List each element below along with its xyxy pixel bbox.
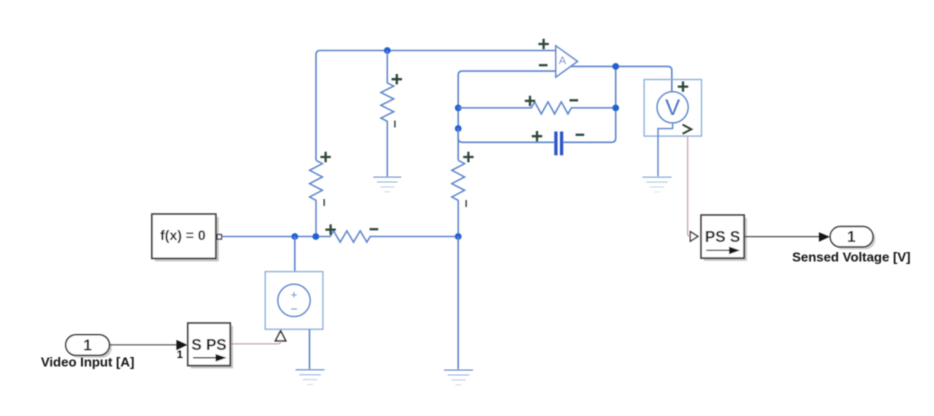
wire top net from node A to op-amp + input — [316, 51, 556, 161]
junction J6 (node under R1) — [312, 233, 319, 240]
wire input port to S-PS converter — [109, 344, 177, 346]
junction J1 (feedback resistor left) — [455, 105, 462, 112]
capacitor C1 — [532, 131, 584, 155]
wire node to bottom ground — [457, 237, 459, 370]
svg-text:A: A — [559, 55, 567, 67]
S-PS converter block shadow — [191, 326, 233, 369]
svg-text:−: − — [290, 302, 297, 316]
wire S-PS to current source (red) — [230, 341, 280, 344]
ground G4 (bottom middle) — [444, 370, 473, 385]
junction J5 (current source feed) — [291, 233, 298, 240]
resistor R2 (middle vertical, to ground) — [381, 51, 402, 177]
output port oval 1 — [830, 227, 873, 247]
op-amp U1 — [538, 39, 577, 77]
resistor R5 labels — [325, 224, 335, 234]
PS-S converter block — [701, 215, 744, 258]
wire PS-S to output port — [744, 236, 819, 238]
wire voltmeter to ground — [658, 123, 673, 176]
wire PS signal from voltmeter to PS-S converter (red) — [688, 136, 691, 236]
svg-text:S PS: S PS — [191, 337, 226, 354]
ground G2 (under voltmeter) — [643, 177, 672, 192]
svg-text:PS S: PS S — [705, 229, 740, 246]
signal input triangle of current source (black) — [275, 331, 285, 341]
svg-text:I: I — [323, 198, 326, 209]
resistor R3 (feedback, horizontal) — [458, 96, 616, 114]
S-PS converter block — [188, 323, 230, 366]
arrowhead into output port — [819, 232, 830, 241]
voltmeter U2 box — [644, 80, 701, 137]
wire op-amp output to voltmeter — [571, 66, 672, 91]
junction J7 (node under R4) — [455, 233, 462, 240]
svg-text:1: 1 — [177, 349, 183, 361]
svg-text:+: + — [291, 289, 297, 301]
svg-text:V: V — [665, 95, 680, 120]
junction J3 (op-amp output) — [612, 63, 619, 70]
svg-text:1: 1 — [83, 338, 92, 355]
ground G3 (under current source) — [296, 370, 325, 385]
wire capacitor right branch up to op-amp output — [563, 66, 615, 142]
output port oval shadow — [833, 229, 876, 249]
svg-text:1: 1 — [847, 229, 856, 246]
junction node A (top) — [384, 47, 391, 54]
wire op-amp minus input (feedback net left) — [458, 71, 556, 160]
svg-text:Sensed Voltage [V]: Sensed Voltage [V] — [792, 250, 910, 265]
solver block f(x)=0 — [152, 214, 216, 258]
wire capacitor left branch — [458, 129, 554, 143]
PS input triangle of PS-S converter — [690, 232, 698, 242]
input port oval 1 — [66, 335, 110, 356]
wire main bottom net with resistor R5 — [222, 231, 458, 242]
wire current source to ground — [309, 329, 311, 369]
resistor R1 (left vertical) — [310, 152, 331, 237]
ground G1 (under R2) — [373, 177, 401, 192]
svg-text:I: I — [394, 120, 397, 131]
resistor R4 (right vertical) — [452, 152, 474, 237]
PS-S converter block shadow — [704, 218, 747, 261]
arrowhead into S-PS converter — [176, 340, 187, 350]
junction J2 (capacitor branch left) — [455, 125, 462, 132]
solver block port square — [217, 235, 221, 240]
solver block f(x)=0 shadow — [155, 217, 219, 261]
current source B3 box — [265, 272, 323, 330]
wire junction to current source — [294, 237, 296, 272]
svg-text:I: I — [465, 199, 468, 210]
input port oval shadow — [68, 337, 112, 358]
svg-text:Video Input [A]: Video Input [A] — [41, 355, 135, 370]
junction J4 (feedback resistor right) — [612, 105, 619, 112]
svg-text:f(x) = 0: f(x) = 0 — [160, 227, 206, 243]
